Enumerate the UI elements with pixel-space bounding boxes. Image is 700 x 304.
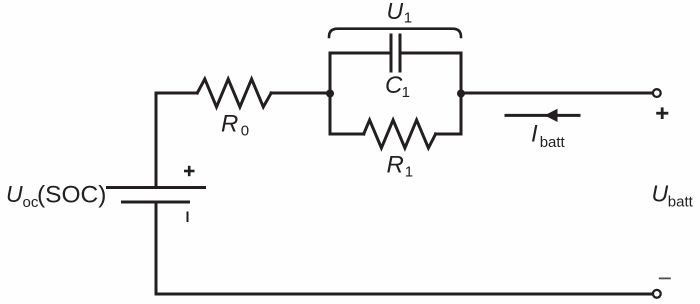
svg-text:0: 0: [241, 122, 249, 139]
svg-text:R: R: [387, 151, 404, 178]
svg-text:1: 1: [404, 9, 412, 26]
svg-text:I: I: [531, 121, 538, 148]
svg-text:batt: batt: [540, 134, 566, 151]
svg-text:C: C: [385, 72, 403, 99]
svg-text:1: 1: [402, 84, 410, 101]
svg-text:batt: batt: [668, 194, 694, 211]
svg-text:U: U: [6, 181, 23, 207]
svg-text:U: U: [652, 180, 669, 206]
svg-text:1: 1: [405, 164, 413, 181]
svg-text:R: R: [221, 111, 238, 138]
svg-text:U: U: [387, 0, 404, 24]
svg-text:(SOC): (SOC): [37, 182, 106, 209]
